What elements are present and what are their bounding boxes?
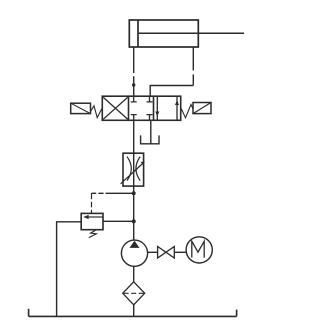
valve centre box blocked port T top-left	[131, 96, 137, 102]
node main line junction	[132, 219, 136, 223]
wire valve drain to tank	[150, 120, 152, 143]
valve centre box blocked port T bottom-right	[147, 115, 153, 121]
wire cylinder left port (dashed)	[133, 47, 135, 96]
wire cylinder right port (dashed)	[192, 47, 194, 86]
throttle arc right	[136, 157, 140, 181]
cylinder body	[129, 20, 198, 47]
wire pilot line vertical dashed	[91, 193, 93, 213]
solenoid Y2 right	[193, 103, 211, 114]
flow control valve body	[123, 153, 144, 186]
motor M1 circle	[186, 237, 212, 263]
adjustment arrow	[121, 161, 145, 184]
valve divider left	[128, 96, 130, 120]
pump P1 circle	[121, 240, 147, 266]
wire pump to shutoff valve	[148, 251, 158, 253]
filter F1 diamond	[123, 282, 145, 305]
wire pump suction	[133, 266, 135, 282]
throttle arc left	[127, 157, 131, 181]
valve V1 body	[102, 96, 180, 120]
solenoid Y1 left	[71, 103, 91, 113]
valve left box crossed arrows	[103, 97, 127, 119]
wire main pressure line	[133, 120, 135, 240]
tank line bottom	[29, 315, 237, 317]
valve centre box blocked port T top-right	[147, 96, 153, 102]
spring right zigzag	[181, 105, 193, 118]
node pilot tap junction	[132, 191, 136, 195]
relief valve spring	[89, 230, 97, 237]
pump outlet triangle	[130, 241, 140, 248]
filter element dashed	[124, 292, 144, 294]
wire relief valve outlet to main line	[103, 220, 134, 222]
spring left zigzag	[91, 106, 103, 118]
relief valve internal arrow	[83, 215, 102, 219]
shutoff valve bowtie	[158, 247, 175, 259]
node on left port line	[132, 83, 135, 86]
valve centre box blocked port T bottom-left	[131, 115, 137, 121]
relief valve body	[81, 213, 103, 229]
valve right box arrow up	[175, 97, 179, 120]
wire right port horizontal run	[150, 86, 193, 97]
wire shutoff valve to motor	[174, 251, 186, 253]
cylinder rod	[138, 32, 244, 34]
tank symbol	[141, 135, 159, 143]
valve right box arrow down	[155, 97, 159, 120]
motor letter M	[192, 241, 204, 257]
wire relief valve to tank return	[57, 222, 82, 317]
wire filter to tank	[133, 305, 135, 317]
valve divider right	[153, 96, 155, 120]
tank line left stub	[28, 309, 30, 317]
wire pilot line horizontal	[92, 192, 134, 194]
tank line right stub	[236, 310, 238, 317]
cylinder piston	[137, 20, 139, 47]
